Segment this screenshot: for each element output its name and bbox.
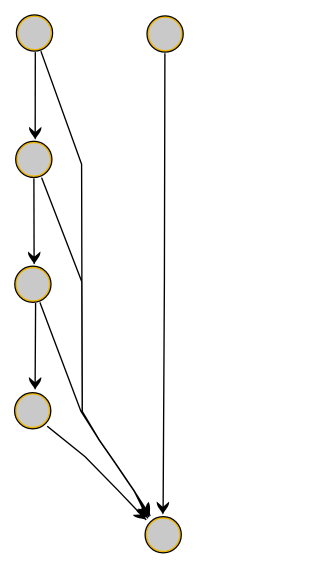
node A — [17, 15, 53, 51]
node F — [145, 517, 181, 553]
node D — [15, 266, 51, 302]
wire edge A->F — [41, 51, 156, 519]
wire edge A->C — [29, 52, 41, 140]
node E — [15, 393, 51, 429]
wire edge D->E — [29, 303, 41, 390]
wire edge D->F — [40, 302, 153, 521]
wire edge C->F — [42, 178, 155, 521]
node B — [147, 16, 183, 52]
wire edge B->F — [157, 53, 170, 514]
wire edge E->F — [47, 426, 150, 524]
node C — [16, 141, 52, 177]
wire edge C->D — [28, 178, 40, 264]
